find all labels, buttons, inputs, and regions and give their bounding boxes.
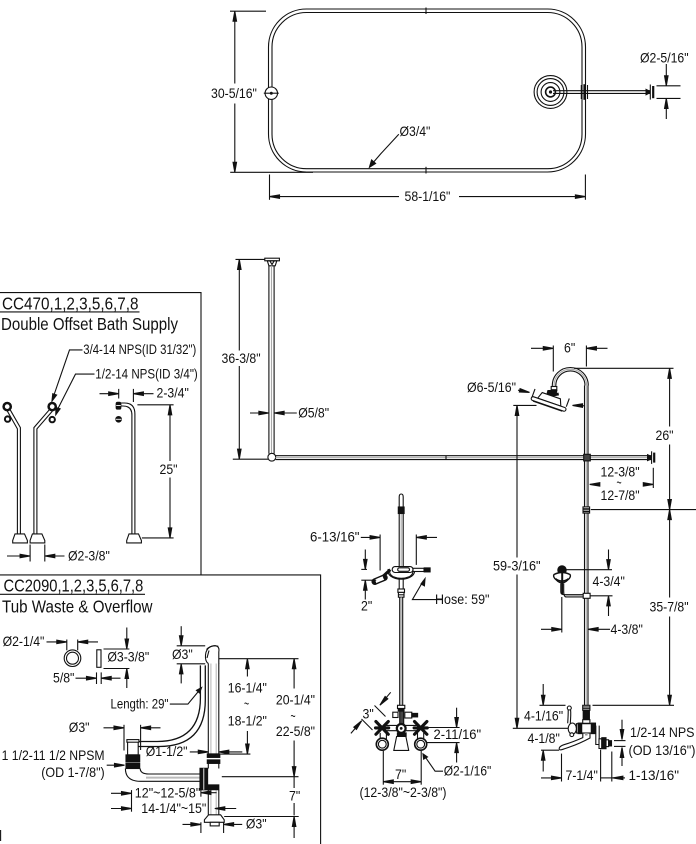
dim 12 ~ 12-5/8 (111, 784, 217, 811)
svg-text:Ø3-3/8": Ø3-3/8" (107, 648, 149, 664)
side view escutcheon foot (127, 534, 142, 543)
dim 25 inch (137, 405, 177, 538)
ref line 26in top (574, 367, 674, 369)
label 3/4-14 NPS(ID 31/32) (51, 341, 196, 403)
svg-text:30-5/16": 30-5/16" (211, 85, 257, 101)
svg-text:25": 25" (160, 461, 178, 477)
tube 1 lower ball 1/2 NPS (5, 416, 10, 421)
dim diameter 3-3/8 (washer) (104, 628, 150, 689)
svg-text:6": 6" (564, 339, 575, 355)
ceiling flange (265, 258, 280, 266)
hand shower head in cradle (371, 570, 390, 586)
svg-text:Ø2-5/16": Ø2-5/16" (640, 49, 689, 65)
label Hose: 59 with leader (412, 577, 489, 607)
svg-text:5/8": 5/8" (53, 669, 74, 685)
CC470 box border (0, 293, 201, 575)
tube 2 top ball 3/4 NPS (49, 403, 56, 410)
svg-text:12-7/8": 12-7/8" (601, 487, 640, 503)
svg-text:2": 2" (361, 597, 372, 613)
svg-text:6-13/16": 6-13/16" (310, 529, 360, 545)
svg-text:Ø2-1/4": Ø2-1/4" (3, 633, 45, 649)
left cross handle (376, 722, 389, 735)
label diameter 3/4 with leader (369, 123, 431, 168)
CC470 titles (0, 294, 178, 335)
label 1/2-14 NPS (OD 13/16) (614, 720, 696, 766)
right supply union (415, 733, 427, 750)
shower head collar (551, 387, 557, 390)
dim 7 inch (centers) (383, 751, 421, 785)
wall flange of shower arm (646, 85, 654, 100)
svg-text:16-1/4": 16-1/4" (228, 679, 267, 695)
shower head ball joint (546, 390, 560, 398)
dim 2-3/4 (100, 385, 189, 403)
tube 2 lower ball 1/2 NPS (50, 417, 55, 422)
left supply union (376, 733, 388, 750)
valve lever handle (567, 706, 571, 723)
faucet cross bar (382, 725, 420, 730)
svg-text:Ø5/8": Ø5/8" (298, 404, 329, 420)
svg-text:4-3/4": 4-3/4" (593, 573, 625, 589)
hook pipe to riser (561, 584, 585, 598)
diverter tee on faucet (393, 711, 418, 725)
vertical support rod (269, 266, 274, 454)
svg-text:20-1/4": 20-1/4" (276, 691, 315, 707)
faucet hub circles (397, 724, 406, 733)
curtain rod oval top view outer wall (269, 9, 586, 172)
dim 4-3/8 (541, 621, 643, 637)
dim 36-3/8 (222, 259, 269, 459)
ref line foot bottom (224, 816, 299, 818)
ref line overflow head center (219, 658, 299, 660)
ref line spout bottom (541, 749, 559, 751)
ref line mid right (591, 509, 696, 511)
dim diameter 2-3/8 (7, 545, 110, 564)
dim diameter 1-1/2 (standpipe) (146, 743, 243, 759)
svg-text:12"~12-5/8": 12"~12-5/8" (135, 784, 201, 800)
overflow elbow head (205, 646, 219, 664)
overflow standpipe (208, 663, 219, 815)
svg-text:22-5/8": 22-5/8" (276, 723, 315, 739)
svg-text:7": 7" (395, 766, 406, 782)
svg-text:Double Offset Bath Supply: Double Offset Bath Supply (1, 314, 178, 334)
svg-text:Ø3/4": Ø3/4" (400, 123, 431, 139)
CC2090 titles (0, 576, 153, 617)
riser clamp at hook (583, 593, 590, 598)
rod collar (398, 507, 404, 514)
gooseneck shower arm (552, 368, 588, 387)
svg-text:(12-3/8"~2-3/8"): (12-3/8"~2-3/8") (360, 784, 447, 800)
side view lower ball (116, 417, 122, 423)
hand shower hose (400, 597, 403, 705)
riser coupling above valve (583, 705, 590, 710)
gasket washer side view (97, 650, 101, 668)
dim 4-3/4 (567, 550, 625, 617)
tube 1 top ball 3/4 NPS (4, 403, 11, 410)
tailpiece foot (204, 815, 224, 826)
horizontal curtain rod (side view) (276, 456, 652, 460)
ref line top of head level (513, 404, 536, 406)
svg-text:4-1/8": 4-1/8" (528, 730, 560, 746)
svg-text:Ø3": Ø3" (246, 816, 267, 832)
dim 16-1/4 ~ 18-1/2 (228, 659, 267, 754)
svg-text:59-3/16": 59-3/16" (493, 558, 541, 574)
svg-text:35-7/8": 35-7/8" (650, 599, 689, 615)
dim 30-5/16 (211, 11, 313, 172)
svg-text:~: ~ (244, 695, 249, 711)
slip nut on standpipe (207, 754, 220, 764)
waste tee fitting (200, 768, 219, 790)
wall flange at right end of rod (647, 451, 654, 464)
svg-text:Ø3": Ø3" (172, 646, 193, 662)
dim 2-11/16 (427, 708, 481, 763)
svg-text:58-1/16": 58-1/16" (405, 188, 451, 204)
riser coupling (583, 507, 590, 513)
valve union (left) (568, 723, 576, 737)
dim 14-1/4 ~ 15 (111, 800, 236, 816)
rod-to-riser connector (584, 454, 591, 461)
svg-text:2-3/4": 2-3/4" (157, 385, 189, 401)
svg-text:Length: 29": Length: 29" (111, 696, 169, 712)
label 1/2-14 NPS(ID 3/4) (55, 365, 198, 416)
valve side outlet nipple (596, 726, 612, 749)
dim diameter 5/8 (rod) (250, 404, 329, 420)
dim diameter 3 (drain shoe) (69, 719, 161, 751)
dim 4-1/16 and 4-1/8 (524, 684, 563, 772)
supply tube 2 (front view) (34, 409, 53, 534)
svg-text:1 1/2-11 1/2 NPSM: 1 1/2-11 1/2 NPSM (2, 747, 105, 763)
ref lines at valve top level (540, 704, 675, 706)
right cross handle (414, 722, 427, 735)
svg-text:Ø3": Ø3" (69, 719, 90, 735)
tub spout (559, 733, 590, 750)
cradle (soap dish) (388, 567, 415, 580)
dim 2 inch (361, 550, 376, 614)
svg-text:CC2090,1,2,3,5,6,7,8: CC2090,1,2,3,5,6,7,8 (4, 576, 144, 596)
center spout cone (394, 733, 409, 751)
svg-text:3/4-14 NPS(ID 31/32"): 3/4-14 NPS(ID 31/32") (83, 341, 196, 357)
svg-text:4-3/8": 4-3/8" (611, 621, 643, 637)
tube 1 escutcheon foot (13, 534, 28, 543)
flexible waste hose (29in) (134, 665, 206, 746)
side view top ball (116, 402, 121, 409)
ext line from hook stem (561, 597, 563, 633)
shower head (531, 390, 569, 412)
svg-text:Tub Waste & Overflow: Tub Waste & Overflow (2, 597, 153, 617)
label Length: 29 with leader (111, 686, 203, 711)
waste elbow to horizontal pipe (125, 769, 200, 782)
dim diameter 3 (foot) (183, 816, 267, 833)
dim diameter 2-5/16 (flange) (640, 49, 689, 119)
svg-text:~: ~ (291, 708, 296, 724)
svg-text:2-11/16": 2-11/16" (434, 726, 482, 742)
svg-text:1/2-14 NPS(ID 3/4"): 1/2-14 NPS(ID 3/4") (95, 365, 198, 381)
dim 7-1/4 and 1-13/16 (541, 750, 679, 784)
dim diameter 6-5/16 (head) (467, 379, 585, 408)
dim 7 inch (tailpiece) (289, 777, 300, 838)
rod joint tick top (425, 8, 427, 15)
svg-text:Ø6-5/16": Ø6-5/16" (467, 379, 516, 395)
svg-text:1/2-14 NPS: 1/2-14 NPS (630, 724, 695, 740)
svg-text:7": 7" (289, 787, 300, 803)
svg-text:3": 3" (363, 706, 374, 722)
note (12-3/8 ~ 2-3/8) (360, 784, 447, 800)
shower head (top view, concentric circles) (534, 76, 567, 109)
dim diameter 3 (overflow head) (172, 626, 205, 683)
shower riser pipe (585, 386, 589, 706)
overflow gasket ring (64, 650, 81, 667)
ref line valve centerline (513, 727, 569, 729)
svg-text:Ø2-1/16": Ø2-1/16" (444, 763, 492, 779)
drain strainer body (126, 755, 140, 769)
svg-text:36-3/8": 36-3/8" (222, 350, 261, 366)
hose fitting below cradle (398, 589, 405, 597)
drain shoe elbow (127, 740, 139, 755)
tube 2 escutcheon foot (30, 534, 45, 543)
dim 5/8 (washer thickness) (53, 669, 121, 685)
svg-text:(OD 13/16"): (OD 13/16") (629, 742, 696, 758)
valve inlet fitting (583, 711, 590, 723)
ref line tee top (220, 753, 250, 755)
label diameter 2-1/16 with leader (422, 753, 491, 779)
arm collar at oval wall (581, 84, 587, 100)
svg-text:Ø1-1/2": Ø1-1/2" (146, 743, 188, 759)
cradle right stub (hose connection) (413, 568, 430, 572)
shower arm (top view) (553, 91, 650, 94)
ball joint at rod corner (268, 453, 276, 461)
svg-text:7-1/4": 7-1/4" (566, 767, 598, 783)
svg-text:CC470,1,2,3,5,6,7,8: CC470,1,2,3,5,6,7,8 (2, 294, 139, 314)
svg-text:Ø2-3/8": Ø2-3/8" (68, 547, 110, 563)
dim 3 inch (diagonal) (351, 692, 391, 733)
hand shower hook ball (558, 566, 566, 574)
hand shower holder rod (399, 494, 403, 589)
svg-text:(OD 1-7/8"): (OD 1-7/8") (41, 764, 104, 780)
dim 20-1/4 ~ 22-5/8 (276, 659, 315, 777)
label 1 1/2-11 1/2 NPSM (OD 1-7/8) (2, 747, 125, 780)
tub valve body (576, 723, 595, 734)
svg-text:18-1/2": 18-1/2" (228, 712, 267, 728)
dim 26 and 35-7/8 (650, 368, 689, 705)
dim 6-13/16 (310, 529, 437, 571)
dim 58-1/16 (270, 175, 586, 205)
svg-text:14-1/4"~15": 14-1/4"~15" (141, 800, 206, 816)
rod joint tick bottom (425, 167, 427, 174)
hose end fitting at diverter (398, 705, 405, 711)
svg-text:4-1/16": 4-1/16" (524, 708, 563, 724)
ref line waste pipe center (222, 776, 299, 778)
svg-text:26": 26" (656, 427, 674, 443)
dim 59-3/16 (493, 405, 541, 728)
ceiling support fitting (top view) (264, 87, 279, 99)
hand shower hook cup (554, 570, 571, 594)
dim diameter 2-1/4 (ring) (3, 633, 98, 650)
CC2090 box border (0, 575, 321, 844)
curtain rod oval top view inner wall (272, 13, 582, 169)
supply tube 1 (front view) (7, 409, 20, 534)
svg-text:Hose: 59": Hose: 59" (435, 591, 490, 607)
svg-text:1-13/16": 1-13/16" (629, 767, 680, 783)
dim 12-3/8 ~ 12-7/8 (590, 464, 654, 504)
dim 6 inch (531, 339, 608, 371)
side view tube (CC470) (121, 403, 135, 534)
